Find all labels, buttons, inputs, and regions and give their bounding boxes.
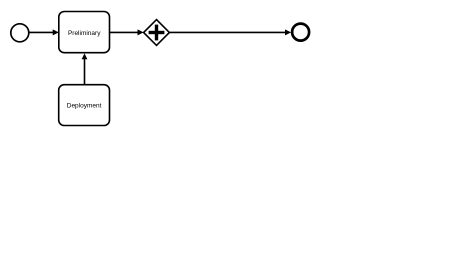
svg-text:Preliminary: Preliminary	[68, 30, 101, 37]
svg-text:Deployment: Deployment	[67, 102, 102, 109]
